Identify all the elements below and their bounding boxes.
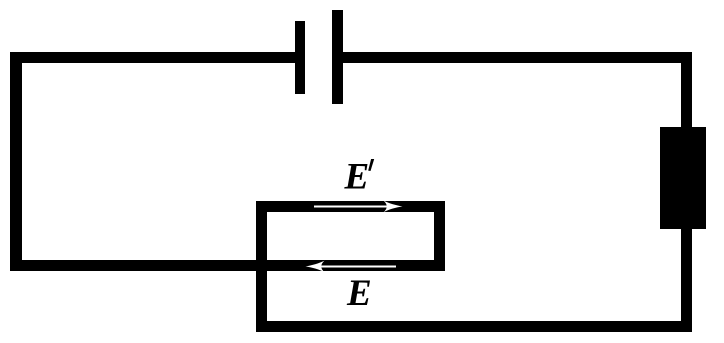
wire: left vertical — [10, 52, 22, 271]
wire: top segment right of battery — [343, 52, 692, 63]
arrow E direction (white, leftward, inside inner-loop bottom side) — [306, 261, 397, 273]
inner loop: right side — [434, 201, 445, 271]
resistor R (solid block) — [660, 127, 706, 229]
svg-text:E: E — [346, 273, 372, 314]
inner loop: bottom side — [256, 260, 445, 271]
label E' (emf of inner source) — [344, 157, 375, 198]
battery plate left (short) — [295, 21, 305, 94]
wire: middle horizontal from left wire to inner loop — [10, 260, 267, 271]
wire: inner-loop left side extended down to bottom wire — [256, 201, 267, 332]
wire: right vertical — [681, 52, 692, 332]
wire: bottom horizontal — [256, 321, 692, 332]
wire: top segment left of battery — [10, 52, 295, 63]
svg-text:E: E — [344, 157, 370, 198]
battery plate right (tall) — [332, 10, 343, 104]
inner loop: top side — [256, 201, 445, 212]
arrow E' direction (white, rightward, inside inner-loop top side) — [314, 201, 403, 213]
